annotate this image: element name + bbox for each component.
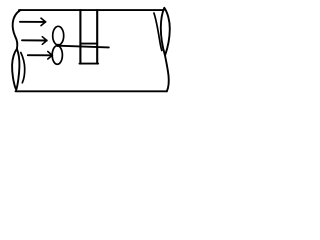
flow arrow 2 shaft bbox=[22, 39, 47, 41]
flow arrow 3 head bbox=[48, 52, 53, 60]
right pipe-break lower arc bbox=[165, 56, 169, 92]
vane shaft bbox=[58, 46, 109, 48]
flow arrow 1 head bbox=[41, 18, 46, 26]
vane lower ellipse bbox=[52, 46, 62, 65]
right pipe-break inner fold stroke bbox=[154, 13, 162, 51]
duct bottom wall bbox=[16, 90, 167, 92]
right pipe-break upper loop bbox=[161, 8, 170, 56]
left pipe-break inner fold stroke bbox=[21, 53, 25, 83]
duct top wall bbox=[19, 9, 164, 11]
sensor body left wall bbox=[79, 10, 81, 64]
flow arrow 2 head bbox=[42, 37, 47, 45]
left pipe-break upper arc bbox=[13, 10, 21, 49]
flow arrow 1 shaft bbox=[20, 21, 46, 23]
vane hub node bbox=[56, 44, 59, 47]
left pipe-break lower loop bbox=[12, 49, 19, 90]
sensor body divider line bbox=[80, 43, 97, 45]
sensor body bottom bbox=[80, 63, 99, 65]
sensor body right wall bbox=[96, 10, 98, 64]
flow arrow 3 shaft bbox=[28, 54, 53, 56]
vane upper ellipse bbox=[53, 26, 64, 45]
